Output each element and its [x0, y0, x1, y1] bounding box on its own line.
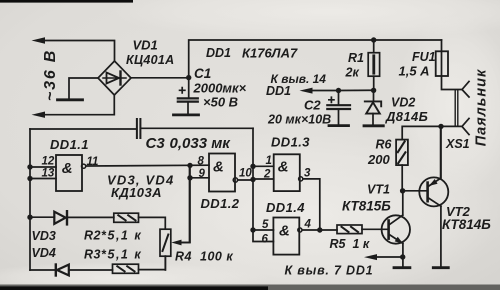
svg-text:3: 3 — [304, 168, 311, 180]
svg-text:С3: С3 — [146, 135, 166, 152]
svg-text:C1: C1 — [194, 66, 211, 81]
svg-text:&: & — [213, 159, 224, 176]
svg-text:VT1: VT1 — [367, 183, 390, 197]
svg-text:13: 13 — [42, 168, 55, 180]
svg-text:100 к: 100 к — [200, 250, 233, 264]
svg-text:VD2: VD2 — [391, 95, 415, 109]
svg-text:9: 9 — [199, 168, 206, 180]
svg-text:DD1.1: DD1.1 — [50, 137, 89, 152]
svg-text:6: 6 — [262, 234, 269, 246]
svg-text:1,5 А: 1,5 А — [399, 64, 430, 79]
svg-text:8: 8 — [198, 156, 205, 168]
svg-text:VD3: VD3 — [32, 229, 56, 243]
svg-text:&: & — [278, 158, 289, 175]
svg-text:0,033 мк: 0,033 мк — [170, 135, 232, 152]
svg-text:2к: 2к — [345, 66, 360, 80]
svg-text:DD1: DD1 — [266, 84, 291, 98]
svg-text:&: & — [62, 160, 73, 177]
svg-text:R2*: R2* — [84, 229, 107, 243]
svg-text:R4: R4 — [175, 250, 192, 264]
svg-text:КТ814Б: КТ814Б — [442, 217, 491, 232]
svg-text:VD4: VD4 — [32, 246, 56, 260]
svg-text:10: 10 — [239, 168, 252, 180]
svg-text:5: 5 — [262, 219, 269, 231]
svg-text:1 к: 1 к — [353, 237, 370, 251]
svg-text:R5: R5 — [330, 237, 347, 251]
svg-text:XS1: XS1 — [445, 137, 470, 151]
svg-text:R1: R1 — [348, 51, 364, 65]
svg-text:R6: R6 — [376, 138, 393, 152]
svg-text:12: 12 — [42, 156, 55, 168]
svg-text:20 мк×10В: 20 мк×10В — [267, 113, 331, 127]
svg-text:2000мк×: 2000мк× — [193, 81, 247, 96]
svg-text:DD1.4: DD1.4 — [266, 200, 305, 215]
svg-text:R3*: R3* — [84, 248, 107, 262]
svg-text:1: 1 — [266, 155, 272, 167]
svg-text:К176ЛА7: К176ЛА7 — [242, 46, 298, 61]
svg-text:5,1 к: 5,1 к — [108, 229, 143, 243]
svg-text:DD1.3: DD1.3 — [271, 135, 310, 150]
svg-text:200: 200 — [367, 152, 390, 167]
svg-text:~36 В: ~36 В — [42, 49, 59, 101]
svg-text:5,1 к: 5,1 к — [108, 248, 143, 262]
svg-text:КЦ401А: КЦ401А — [126, 53, 174, 67]
svg-text:Д814Б: Д814Б — [385, 109, 428, 124]
svg-text:DD1.2: DD1.2 — [201, 196, 240, 211]
svg-text:КТ815Б: КТ815Б — [342, 198, 391, 213]
svg-text:×50 В: ×50 В — [203, 95, 238, 110]
svg-text:FU1: FU1 — [412, 50, 436, 64]
svg-text:2: 2 — [263, 169, 271, 181]
svg-text:4: 4 — [304, 219, 312, 231]
svg-text:11: 11 — [87, 156, 99, 168]
svg-text:К выв. 7 DD1: К выв. 7 DD1 — [285, 264, 374, 278]
svg-text:&: & — [279, 223, 290, 240]
svg-text:КД103А: КД103А — [111, 185, 162, 200]
svg-text:VD1: VD1 — [133, 38, 158, 53]
svg-text:DD1: DD1 — [206, 46, 231, 60]
svg-text:C2: C2 — [304, 98, 321, 113]
svg-text:Паяльник: Паяльник — [474, 69, 490, 147]
